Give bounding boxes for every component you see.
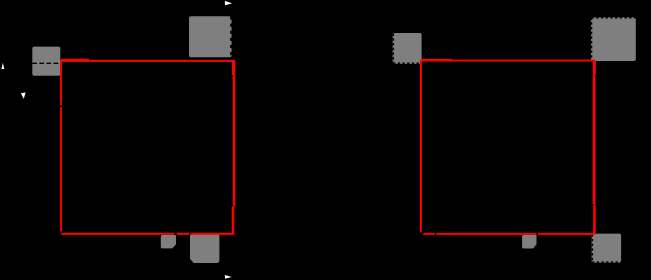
beam path B bottom edge notch 2 (black dash of M7 outline)	[536, 233, 538, 235]
beam path B bottom edge (red, starts right of corner)	[423, 233, 595, 235]
beam path A right edge mid segment (red)	[233, 76, 236, 206]
arrowhead A1 (white, pointing up, far left)	[2, 63, 5, 69]
mirror M6 (panel B top-right gray square)	[591, 17, 636, 61]
mirror M1 nominal-position dashed edge (black dashes across square)	[32, 62, 60, 64]
beam path A left edge (red)	[60, 60, 62, 231]
beam path B right edge upper kink notch (black)	[595, 75, 596, 77]
mirror M8 (panel B bottom-right gray square)	[592, 234, 622, 263]
beam path B right edge kink notch (black)	[592, 204, 593, 206]
arrowhead A4 (white, pointing right, bottom right)	[225, 275, 232, 279]
beam path A right edge upper segment (red, double line)	[232, 60, 235, 76]
mirror M5 dashed bottom edge (black dashes)	[393, 62, 421, 64]
mirror M6 dashed top edge (black dashes)	[592, 17, 636, 19]
beam path B right edge upper segment (red, double line)	[593, 61, 596, 75]
mirror M4 (panel A bottom large gray square)	[190, 233, 219, 263]
beam path B left edge (red, open at bottom)	[420, 60, 422, 232]
beam path A top edge overlap segment (thicker entering beam)	[61, 59, 89, 61]
beam path A bottom edge notch 2 (black dash of M4 outline)	[189, 233, 190, 236]
beam path B right edge lower segment (red)	[593, 205, 596, 234]
arrowhead A2 (white, pointing down, upper left)	[21, 92, 26, 99]
beam path A bottom edge (red)	[61, 233, 234, 235]
beam path A right edge upper kink notch (black)	[232, 75, 233, 76]
beam path A left edge crossing tick (black dash)	[60, 105, 63, 107]
mirror M8 dashed bottom edge (black dashes)	[592, 261, 621, 263]
arrowhead A3 (white, pointing right, top right)	[225, 1, 232, 5]
beam path B right edge mid segment (red)	[593, 75, 596, 204]
beam path B top edge overlap segment (thicker)	[422, 59, 453, 61]
mirror M5 dashed left edge (black dashes)	[392, 34, 394, 64]
mirror M3 (panel A bottom small gray square, chamfered bottom-right)	[161, 235, 176, 248]
mirror M7 (panel B bottom small gray square, chamfered bottom-right)	[522, 235, 536, 249]
mirror M6 dashed left edge (black dashes)	[591, 18, 593, 61]
beam path A right edge lower segment (red, walked inward)	[232, 205, 235, 234]
beam path A bottom edge notch 1 (black dash of M3 outline)	[174, 233, 176, 236]
mirror M2 (panel A top-right gray square)	[189, 16, 232, 57]
beam path A top edge (red)	[60, 60, 235, 62]
mirror M2 nominal-position dashed edge (black dashes along right edge)	[230, 17, 232, 58]
mirror M5 (panel B top-left gray square)	[393, 33, 422, 64]
mirror M8 dashed left edge (black dashes)	[591, 234, 593, 262]
beam path B bottom edge notch 1 (black dash)	[435, 233, 436, 235]
beam path A right edge kink notch (black)	[232, 204, 233, 206]
mirror M4 dashed notch (black cut at bottom-left corner)	[189, 259, 194, 263]
beam path B top edge (red)	[421, 60, 596, 62]
mirror M1 (panel A top-left gray square)	[32, 47, 60, 76]
